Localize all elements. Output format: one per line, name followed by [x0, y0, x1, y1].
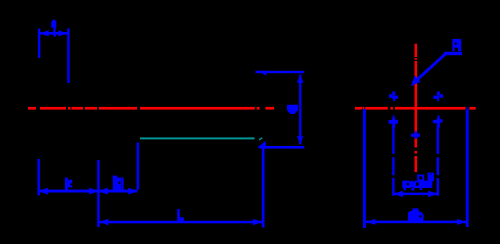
- dim top-left: dimension line with arrows: [40, 30, 68, 36]
- right view: inner ext line right (dashed): [437, 126, 439, 196]
- label R: [452, 39, 461, 51]
- overall length dimension l: [99, 219, 263, 225]
- label l: [177, 209, 184, 221]
- right view: outer ext line right: [466, 107, 469, 227]
- label e1: [408, 208, 424, 221]
- label e1 notch: [419, 215, 421, 217]
- hole arrow mark upper-right: [433, 92, 443, 102]
- right view: outer ext line left (e across): [363, 109, 366, 228]
- ext line at thread end (right, down to l dim): [262, 147, 265, 228]
- head ext line bottom left: [38, 159, 40, 196]
- dia d: bottom extension line with harpoon: [257, 141, 304, 149]
- dia d: top extension line with harpoon: [256, 71, 305, 76]
- centerline left view (red dash-dot): [28, 107, 274, 110]
- dia d: vertical dimension line with arrows: [297, 74, 303, 144]
- hole arrow mark lower-right: [433, 115, 443, 127]
- dim top-left: extension line right: [67, 29, 69, 84]
- centerline right view horizontal (red dash-dot): [355, 107, 476, 110]
- centerline right view vertical (red dash-dot): [415, 44, 418, 172]
- label b1 (char pair with counter): [113, 176, 124, 190]
- text row A (d3): [417, 173, 434, 182]
- inner dimension line (hole pitch): [394, 191, 438, 198]
- radius leader R: [411, 52, 462, 86]
- right view: inner ext line left (dashed): [392, 126, 394, 196]
- label d: [287, 105, 298, 114]
- hole arrow mark upper-left: [389, 92, 398, 102]
- text row B (d2 string): [402, 178, 432, 190]
- hole arrow mark lower-left: [389, 115, 399, 127]
- label b: [65, 178, 72, 191]
- center cross mark on vertical centerline: [411, 131, 420, 139]
- chained dimension line b / b1: [39, 188, 138, 195]
- head face ext line (middle): [97, 160, 99, 227]
- right view bottom dimension e: [366, 219, 466, 225]
- dim top-left: extension line left: [38, 29, 40, 59]
- thread start ext line: [137, 143, 140, 190]
- dim top-left: label: [51, 20, 56, 28]
- thread core line (teal): [140, 137, 262, 140]
- dim top-left: leader stem: [53, 26, 55, 37]
